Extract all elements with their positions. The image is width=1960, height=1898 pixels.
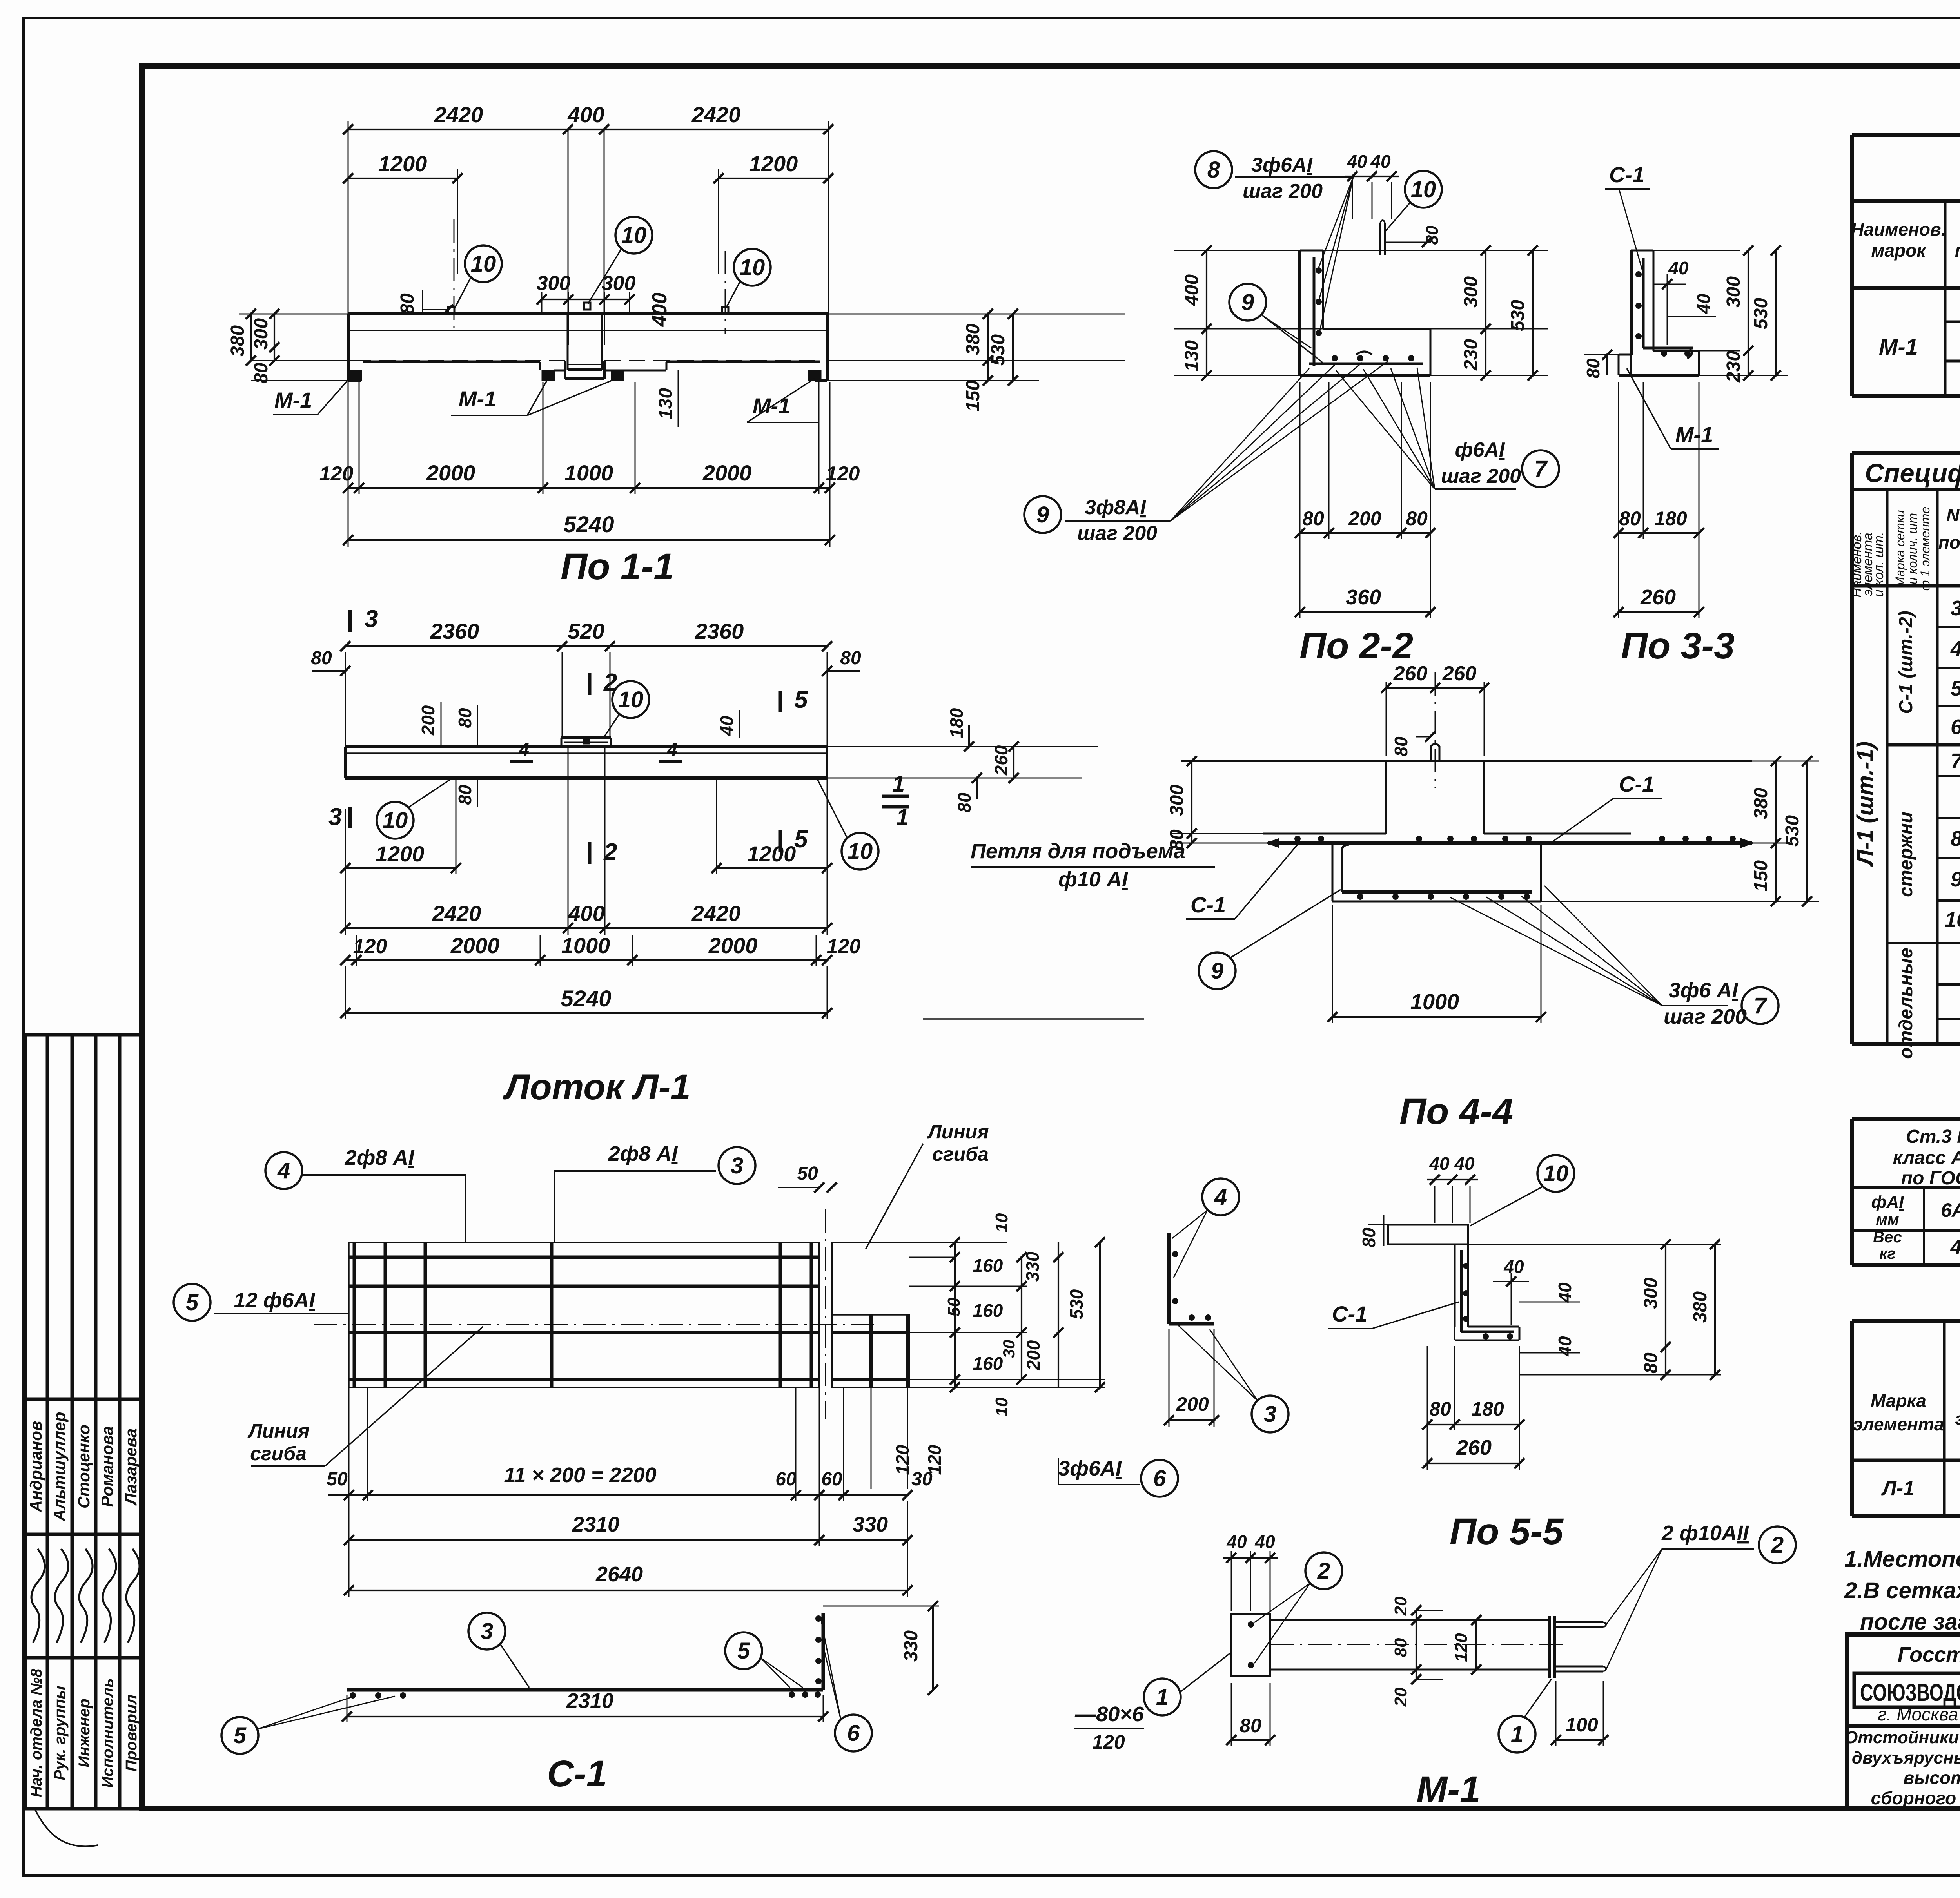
tab loop mark: [583, 738, 590, 744]
svg-text:2360: 2360: [695, 619, 744, 644]
view По 1-1 section body: [348, 312, 828, 315]
svg-text:6: 6: [847, 1720, 860, 1746]
svg-text:2000: 2000: [450, 933, 500, 958]
M-1 embedded plates (По 1-1): [349, 370, 361, 381]
svg-text:80: 80: [1167, 829, 1187, 850]
По 4-4 mesh top (C-1): [1268, 841, 1752, 845]
svg-text:330: 330: [1022, 1251, 1043, 1282]
svg-text:160: 160: [973, 1300, 1003, 1321]
svg-text:3: 3: [365, 605, 378, 633]
svg-text:530: 530: [1751, 298, 1771, 329]
svg-text:7: 7: [1754, 993, 1768, 1019]
svg-text:80: 80: [455, 785, 475, 805]
svg-text:530: 530: [1508, 300, 1528, 331]
svg-text:10: 10: [621, 223, 647, 248]
title block: [1847, 1635, 1960, 1809]
svg-text:и колич. шт: и колич. шт: [1906, 513, 1920, 584]
svg-text:М-1: М-1: [1675, 422, 1713, 447]
svg-text:Нач. отдела №8: Нач. отдела №8: [28, 1668, 45, 1797]
svg-text:сборного железобетона: сборного железобетона: [1871, 1788, 1960, 1808]
svg-text:поз.: поз.: [1938, 532, 1960, 553]
svg-text:3: 3: [1264, 1401, 1276, 1427]
svg-text:Линия: Линия: [927, 1121, 989, 1143]
label 7: ф6АІ шаг 200: [1522, 450, 1559, 487]
По 5-5 mesh: [1460, 1250, 1463, 1332]
svg-text:3: 3: [328, 803, 342, 830]
svg-text:М-1: М-1: [1416, 1769, 1481, 1810]
signature table (left margin): [24, 1035, 27, 1809]
svg-text:80: 80: [1391, 1638, 1410, 1657]
label 7 По 4-4: 3ф6 АІ шаг 200: [1742, 987, 1779, 1024]
svg-text:Отстойники канализационные: Отстойники канализационные: [1844, 1728, 1960, 1747]
svg-text:2ф8 AI: 2ф8 AI: [345, 1146, 415, 1169]
svg-text:2.В сетках С-1 концы стержне: 2.В сетках С-1 концы стержней поз. „2“ и…: [1844, 1578, 1960, 1603]
dim 300/300: [541, 292, 543, 314]
label 6 flange: [835, 1715, 872, 1751]
По 2-2 dim 360: [1299, 539, 1301, 618]
svg-text:5240: 5240: [563, 512, 614, 537]
dims top 2360/520/2360: [345, 652, 346, 747]
svg-text:1200: 1200: [749, 151, 798, 176]
svg-text:5: 5: [794, 686, 808, 713]
svg-text:Госстрой СССР: Госстрой СССР: [1898, 1643, 1960, 1666]
svg-text:10: 10: [848, 839, 873, 864]
svg-text:По 1-1: По 1-1: [561, 546, 674, 587]
svg-text:кг: кг: [1879, 1245, 1896, 1262]
lifting loop pos.10 left: [448, 307, 454, 314]
По 2-2 bottom dims 80/200/80: [1299, 382, 1301, 539]
svg-text:Ст.3 ГОСТ 380–60: Ст.3 ГОСТ 380–60: [1906, 1126, 1960, 1147]
svg-text:3ф6AI: 3ф6AI: [1251, 154, 1313, 176]
svg-text:Проверил: Проверил: [123, 1694, 140, 1771]
svg-text:120: 120: [319, 462, 354, 485]
dim 5240: [345, 966, 346, 1019]
По 2-2 right dims 300/230/530: [1430, 328, 1548, 330]
svg-text:4: 4: [1950, 637, 1960, 660]
label 1 М-1 bottom: [1499, 1716, 1535, 1753]
signature scribble 1: [31, 1549, 45, 1643]
fold line horizontal: [314, 1324, 874, 1325]
С-1 flange corner piece: [822, 1613, 825, 1690]
table2 row rules: [1937, 626, 1960, 628]
circle 10 labels Лоток: [612, 681, 649, 718]
view По 3-3 body: [1630, 250, 1633, 355]
svg-text:по ГОСТ 5781–61: по ГОСТ 5781–61: [1901, 1168, 1960, 1189]
svg-text:сгиба: сгиба: [250, 1443, 307, 1465]
svg-text:3: 3: [1951, 596, 1960, 620]
svg-text:80: 80: [455, 708, 475, 728]
svg-text:20: 20: [1391, 1687, 1410, 1707]
svg-text:6: 6: [1153, 1466, 1166, 1491]
dim 80 (loop offset): [423, 309, 448, 310]
svg-text:М-1: М-1: [274, 388, 312, 412]
svg-text:520: 520: [568, 619, 604, 644]
dims 2420/400/2420 bottom: [345, 874, 346, 935]
svg-text:80: 80: [251, 363, 272, 384]
svg-text:200: 200: [418, 705, 438, 736]
svg-text:9: 9: [1211, 958, 1223, 984]
svg-text:4: 4: [1214, 1184, 1227, 1210]
label 4: 2ф8 АІ: [265, 1152, 302, 1189]
svg-text:330: 330: [901, 1630, 922, 1662]
svg-text:Вес: Вес: [1873, 1229, 1902, 1246]
svg-text:150: 150: [1751, 860, 1771, 892]
svg-text:160: 160: [973, 1353, 1003, 1374]
svg-text:40: 40: [1555, 1336, 1575, 1357]
lifting loop pos.10 middle: [584, 303, 590, 310]
dim 260/260: [1386, 682, 1387, 756]
svg-text:40: 40: [1254, 1532, 1275, 1552]
signature scribble 4: [103, 1549, 116, 1643]
svg-text:1000: 1000: [561, 933, 610, 958]
По 4-4 bottom trough: [1332, 843, 1334, 901]
svg-text:80: 80: [1391, 736, 1411, 757]
svg-text:11 × 200 = 2200: 11 × 200 = 2200: [504, 1463, 656, 1487]
svg-text:80: 80: [1406, 508, 1428, 529]
По 5-5 right dims 300/80/380: [1468, 1244, 1721, 1245]
svg-text:80: 80: [1641, 1352, 1661, 1374]
dims right 380/150/530: [828, 314, 1125, 315]
С-1 bottom flange strip: [347, 1688, 823, 1692]
label 5 flange right: [725, 1632, 762, 1669]
svg-text:1200: 1200: [378, 151, 427, 176]
svg-text:12 ф6AI: 12 ф6AI: [234, 1289, 316, 1312]
svg-text:10: 10: [992, 1397, 1011, 1416]
svg-text:9: 9: [1036, 502, 1049, 528]
svg-text:шаг 200: шаг 200: [1441, 465, 1521, 488]
view М-1 plate: [1231, 1614, 1270, 1676]
svg-text:10: 10: [1411, 177, 1436, 202]
svg-text:отдельные: отдельные: [1896, 948, 1916, 1059]
svg-text:120: 120: [826, 462, 860, 485]
svg-text:1: 1: [1511, 1722, 1523, 1747]
По 2-2 mesh C-1: [1313, 257, 1316, 366]
svg-text:5: 5: [737, 1638, 750, 1664]
label 2 М-1: [1305, 1552, 1342, 1589]
svg-text:2000: 2000: [426, 460, 475, 485]
svg-text:4: 4: [1950, 1236, 1960, 1259]
svg-text:180: 180: [946, 708, 967, 738]
svg-text:Линия: Линия: [247, 1420, 309, 1442]
svg-text:40: 40: [1693, 294, 1714, 314]
titleblock logo СОЮЗВОДОКАНАЛПРОЕКТ: [1854, 1673, 1960, 1707]
svg-text:Инженер: Инженер: [76, 1699, 93, 1767]
svg-text:40: 40: [1370, 151, 1391, 172]
view По 5-5 body: [1388, 1225, 1468, 1244]
svg-text:По 4-4: По 4-4: [1399, 1091, 1513, 1132]
svg-text:300: 300: [537, 272, 571, 295]
svg-text:200: 200: [1023, 1340, 1044, 1370]
svg-text:10: 10: [992, 1213, 1011, 1232]
svg-text:1200: 1200: [376, 841, 425, 866]
svg-text:30: 30: [911, 1469, 933, 1490]
svg-text:3: 3: [481, 1619, 493, 1644]
label 10 loop: [1405, 171, 1442, 208]
svg-text:260: 260: [991, 745, 1011, 776]
svg-text:и кол. шт.: и кол. шт.: [1871, 532, 1886, 597]
table: Спецификация стали: [1852, 133, 1960, 137]
dim 2310 bottom: [347, 1695, 348, 1722]
svg-text:80: 80: [1302, 508, 1324, 529]
svg-text:80: 80: [397, 293, 418, 314]
svg-text:5: 5: [1951, 677, 1960, 700]
svg-text:С-1 (шт.-2): С-1 (шт.-2): [1896, 611, 1916, 714]
svg-text:Стоценко: Стоценко: [74, 1425, 93, 1508]
svg-text:1: 1: [896, 805, 909, 830]
svg-text:300: 300: [251, 318, 272, 350]
svg-text:С-1: С-1: [1609, 162, 1644, 187]
svg-text:20: 20: [1391, 1596, 1410, 1616]
svg-text:3ф8AI: 3ф8AI: [1085, 496, 1146, 519]
svg-text:400: 400: [568, 901, 604, 926]
signature scribble 5: [126, 1549, 140, 1643]
svg-text:Марка: Марка: [1871, 1390, 1926, 1411]
label 9 bottom: 3ф8АІ шаг 200: [1024, 496, 1061, 533]
svg-text:поз.: поз.: [1955, 240, 1960, 261]
svg-text:300: 300: [1641, 1278, 1661, 1309]
svg-text:ф10 AI: ф10 AI: [1058, 868, 1128, 891]
svg-text:мм: мм: [1876, 1211, 1899, 1228]
svg-text:2000: 2000: [702, 460, 752, 485]
svg-text:10: 10: [1945, 908, 1960, 932]
svg-text:530: 530: [988, 334, 1009, 366]
top tab: [561, 736, 611, 739]
svg-text:7: 7: [1951, 749, 1960, 773]
svg-text:230: 230: [1461, 339, 1481, 371]
По 3-3 bottom dims 80/180/260: [1618, 382, 1619, 539]
svg-text:2: 2: [1771, 1532, 1784, 1558]
svg-text:Романова: Романова: [98, 1426, 116, 1507]
svg-text:80: 80: [1429, 1398, 1451, 1420]
svg-text:г. Москва: г. Москва: [1878, 1704, 1958, 1724]
svg-text:1: 1: [1156, 1684, 1169, 1710]
svg-text:Альтшуллер: Альтшуллер: [50, 1412, 69, 1521]
svg-text:шаг 200: шаг 200: [1664, 1005, 1747, 1028]
svg-text:60: 60: [821, 1469, 842, 1490]
svg-text:N°: N°: [1946, 505, 1960, 525]
svg-text:40: 40: [1555, 1282, 1575, 1303]
svg-text:5: 5: [234, 1723, 247, 1748]
svg-text:7: 7: [1534, 456, 1548, 482]
svg-text:фAI: фAI: [1871, 1193, 1904, 1212]
svg-text:380: 380: [227, 325, 248, 357]
label 8: 3ф6АІ шаг 200: [1195, 151, 1232, 188]
label 10 По 5-5: [1537, 1155, 1574, 1192]
channel recess По 1-1: [567, 314, 569, 370]
svg-text:180: 180: [1471, 1398, 1504, 1420]
svg-text:9: 9: [1951, 868, 1960, 891]
svg-text:6: 6: [1951, 715, 1960, 739]
svg-text:180: 180: [1654, 508, 1687, 529]
svg-text:Л-1 (шт.-1): Л-1 (шт.-1): [1853, 741, 1878, 867]
svg-text:260: 260: [1640, 586, 1676, 609]
svg-text:50: 50: [797, 1163, 818, 1184]
svg-text:10: 10: [740, 255, 765, 280]
svg-text:80: 80: [1583, 358, 1603, 379]
bottom dims 50 / 11x200=2200 / 60 60 30: [348, 1387, 350, 1501]
svg-text:Исполнитель: Исполнитель: [99, 1678, 116, 1788]
view Лоток Л-1 body: [345, 745, 827, 748]
dims 120/2000/1000/2000/120: [356, 935, 357, 966]
svg-text:3: 3: [731, 1153, 743, 1178]
svg-text:ф 1 элементе: ф 1 элементе: [1918, 507, 1932, 591]
svg-text:40: 40: [1668, 258, 1689, 278]
svg-text:100: 100: [1565, 1714, 1598, 1736]
dim 5240: [348, 494, 349, 547]
svg-text:9: 9: [1241, 290, 1254, 315]
svg-text:С-1: С-1: [1191, 892, 1226, 917]
svg-text:80: 80: [1240, 1715, 1261, 1737]
svg-text:260: 260: [1442, 662, 1477, 685]
svg-text:М-1: М-1: [1879, 334, 1918, 360]
svg-text:200: 200: [1176, 1393, 1209, 1415]
dim 2310 / 330: [349, 1539, 819, 1541]
svg-text:сгиба: сгиба: [932, 1143, 989, 1165]
По 3-3 right dims 300/230/530: [1653, 250, 1740, 251]
svg-text:330: 330: [853, 1513, 888, 1536]
svg-text:5: 5: [794, 826, 808, 853]
fold line vertical: [818, 1242, 820, 1387]
svg-text:стержни: стержни: [1896, 812, 1916, 897]
svg-text:230: 230: [1723, 351, 1744, 383]
dim 40/40 top: [1352, 182, 1353, 219]
label 5: 12 ф6АІ: [174, 1284, 211, 1321]
svg-text:10: 10: [383, 808, 408, 833]
С-1 horizontal bars: [349, 1256, 819, 1259]
svg-text:60: 60: [775, 1469, 797, 1490]
svg-text:120: 120: [1092, 1731, 1125, 1753]
dim 1200 left/right: [457, 169, 458, 274]
По 4-4 lifting loop: [1431, 744, 1439, 761]
label 9 По 4-4: [1199, 952, 1236, 989]
table: Спецификация арматуры на 1 элемент: [1850, 453, 1854, 1044]
svg-text:300: 300: [1723, 276, 1744, 308]
svg-text:2310: 2310: [566, 1689, 613, 1713]
label 5 flange bottom-left: [221, 1717, 258, 1754]
svg-text:Лазарева: Лазарева: [122, 1428, 140, 1506]
svg-text:530: 530: [1066, 1289, 1087, 1319]
По 5-5 bottom dims 80/180/260: [1427, 1346, 1428, 1430]
svg-text:130: 130: [655, 388, 676, 419]
svg-text:высотой 8,5 м из: высотой 8,5 м из: [1903, 1767, 1960, 1788]
svg-text:300: 300: [1461, 276, 1481, 308]
svg-text:2 ф10AII: 2 ф10AII: [1661, 1521, 1749, 1545]
svg-text:Петля для подъема: Петля для подъема: [971, 839, 1185, 863]
svg-text:40: 40: [1347, 151, 1367, 172]
С-1 bend corner detail: [1167, 1233, 1171, 1324]
dim 2420/400/2420: [348, 121, 349, 314]
svg-text:Рук. группы: Рук. группы: [51, 1686, 69, 1780]
dim 40/40 top По 5-5: [1434, 1186, 1436, 1223]
svg-text:3ф6AI: 3ф6AI: [1058, 1457, 1122, 1480]
svg-text:1.Местоположение лотка Л-1 с: 1.Местоположение лотка Л-1 смотрите на л…: [1844, 1546, 1960, 1572]
По 4-4 right dims 380/150/530: [1752, 761, 1819, 762]
svg-text:2420: 2420: [691, 901, 741, 926]
svg-text:400: 400: [648, 293, 671, 327]
svg-text:300: 300: [1167, 785, 1187, 816]
lifting loop pos.10 right: [722, 307, 728, 314]
svg-text:2310: 2310: [572, 1513, 619, 1536]
svg-text:2640: 2640: [595, 1563, 643, 1586]
svg-text:400: 400: [567, 102, 604, 127]
svg-text:120: 120: [827, 935, 861, 958]
svg-text:4: 4: [667, 739, 677, 760]
svg-text:Спецификация арматуры на 1 э: Спецификация арматуры на 1 элемент: [1865, 459, 1960, 488]
svg-text:5: 5: [186, 1290, 199, 1315]
dim 40/40 М-1: [1231, 1551, 1232, 1611]
pos 4 marks: [510, 760, 533, 763]
М-1 rebar stubs: [1556, 1621, 1603, 1623]
svg-text:эл-та: эл-та: [1955, 1409, 1960, 1428]
svg-text:1200: 1200: [747, 841, 796, 866]
svg-text:120: 120: [353, 935, 387, 958]
svg-text:4: 4: [519, 739, 529, 760]
svg-text:класс AI сортамент: класс AI сортамент: [1893, 1148, 1960, 1168]
svg-text:50: 50: [944, 1297, 964, 1316]
label 3 flange: [468, 1613, 505, 1650]
svg-text:40: 40: [717, 716, 737, 736]
svg-text:двухъярусные диаметром 9м: двухъярусные диаметром 9м: [1852, 1748, 1960, 1767]
dims left 380/300/80: [239, 314, 348, 315]
svg-text:2360: 2360: [430, 619, 479, 644]
svg-text:380: 380: [963, 324, 984, 355]
svg-text:40: 40: [1429, 1153, 1450, 1174]
svg-text:8: 8: [1951, 827, 1960, 850]
svg-text:10: 10: [618, 687, 644, 712]
dim 1000: [1332, 905, 1333, 1023]
svg-text:80: 80: [311, 648, 332, 669]
svg-text:после загиба, связать между: после загиба, связать между собой.: [1860, 1609, 1960, 1635]
По 4-4 left dims 300/80: [1172, 833, 1263, 834]
svg-text:10: 10: [1543, 1161, 1569, 1186]
svg-text:По 3-3: По 3-3: [1621, 625, 1735, 667]
signature scribble 3: [79, 1549, 93, 1643]
svg-text:150: 150: [963, 380, 984, 412]
right dims 180/260/80: [827, 746, 1098, 747]
svg-text:50: 50: [327, 1469, 348, 1490]
М-1 bar: [1270, 1619, 1550, 1621]
svg-text:160: 160: [973, 1255, 1003, 1276]
svg-text:2420: 2420: [434, 102, 483, 127]
svg-text:С-1: С-1: [547, 1753, 607, 1795]
circle labels 10: [465, 245, 502, 282]
svg-text:120: 120: [1452, 1633, 1471, 1662]
svg-text:4: 4: [277, 1158, 290, 1184]
dims 80 top left/right: [312, 670, 345, 672]
folded flap right: [832, 1315, 909, 1387]
svg-text:260: 260: [1456, 1436, 1492, 1459]
svg-text:По 5-5: По 5-5: [1450, 1511, 1564, 1552]
svg-text:2420: 2420: [432, 901, 481, 926]
svg-text:260: 260: [1393, 662, 1428, 685]
bottom dims 120/2000/1000/2000/120: [348, 382, 349, 494]
svg-text:С-1: С-1: [1619, 772, 1654, 796]
svg-text:400: 400: [1181, 274, 1202, 306]
svg-text:шаг 200: шаг 200: [1077, 522, 1157, 545]
svg-text:120: 120: [892, 1445, 913, 1475]
svg-text:300: 300: [602, 272, 636, 295]
svg-text:С-1: С-1: [1332, 1302, 1367, 1326]
svg-text:40: 40: [1503, 1256, 1524, 1277]
svg-text:Л-1: Л-1: [1881, 1477, 1915, 1500]
svg-text:Андрианов: Андрианов: [27, 1421, 45, 1513]
svg-text:80: 80: [840, 648, 861, 669]
section mark 1-1: [882, 795, 909, 798]
svg-text:элемента: элемента: [1853, 1414, 1944, 1434]
svg-text:40: 40: [1226, 1532, 1247, 1552]
margin squiggle below signature table: [35, 1810, 98, 1846]
svg-text:380: 380: [1690, 1291, 1711, 1323]
